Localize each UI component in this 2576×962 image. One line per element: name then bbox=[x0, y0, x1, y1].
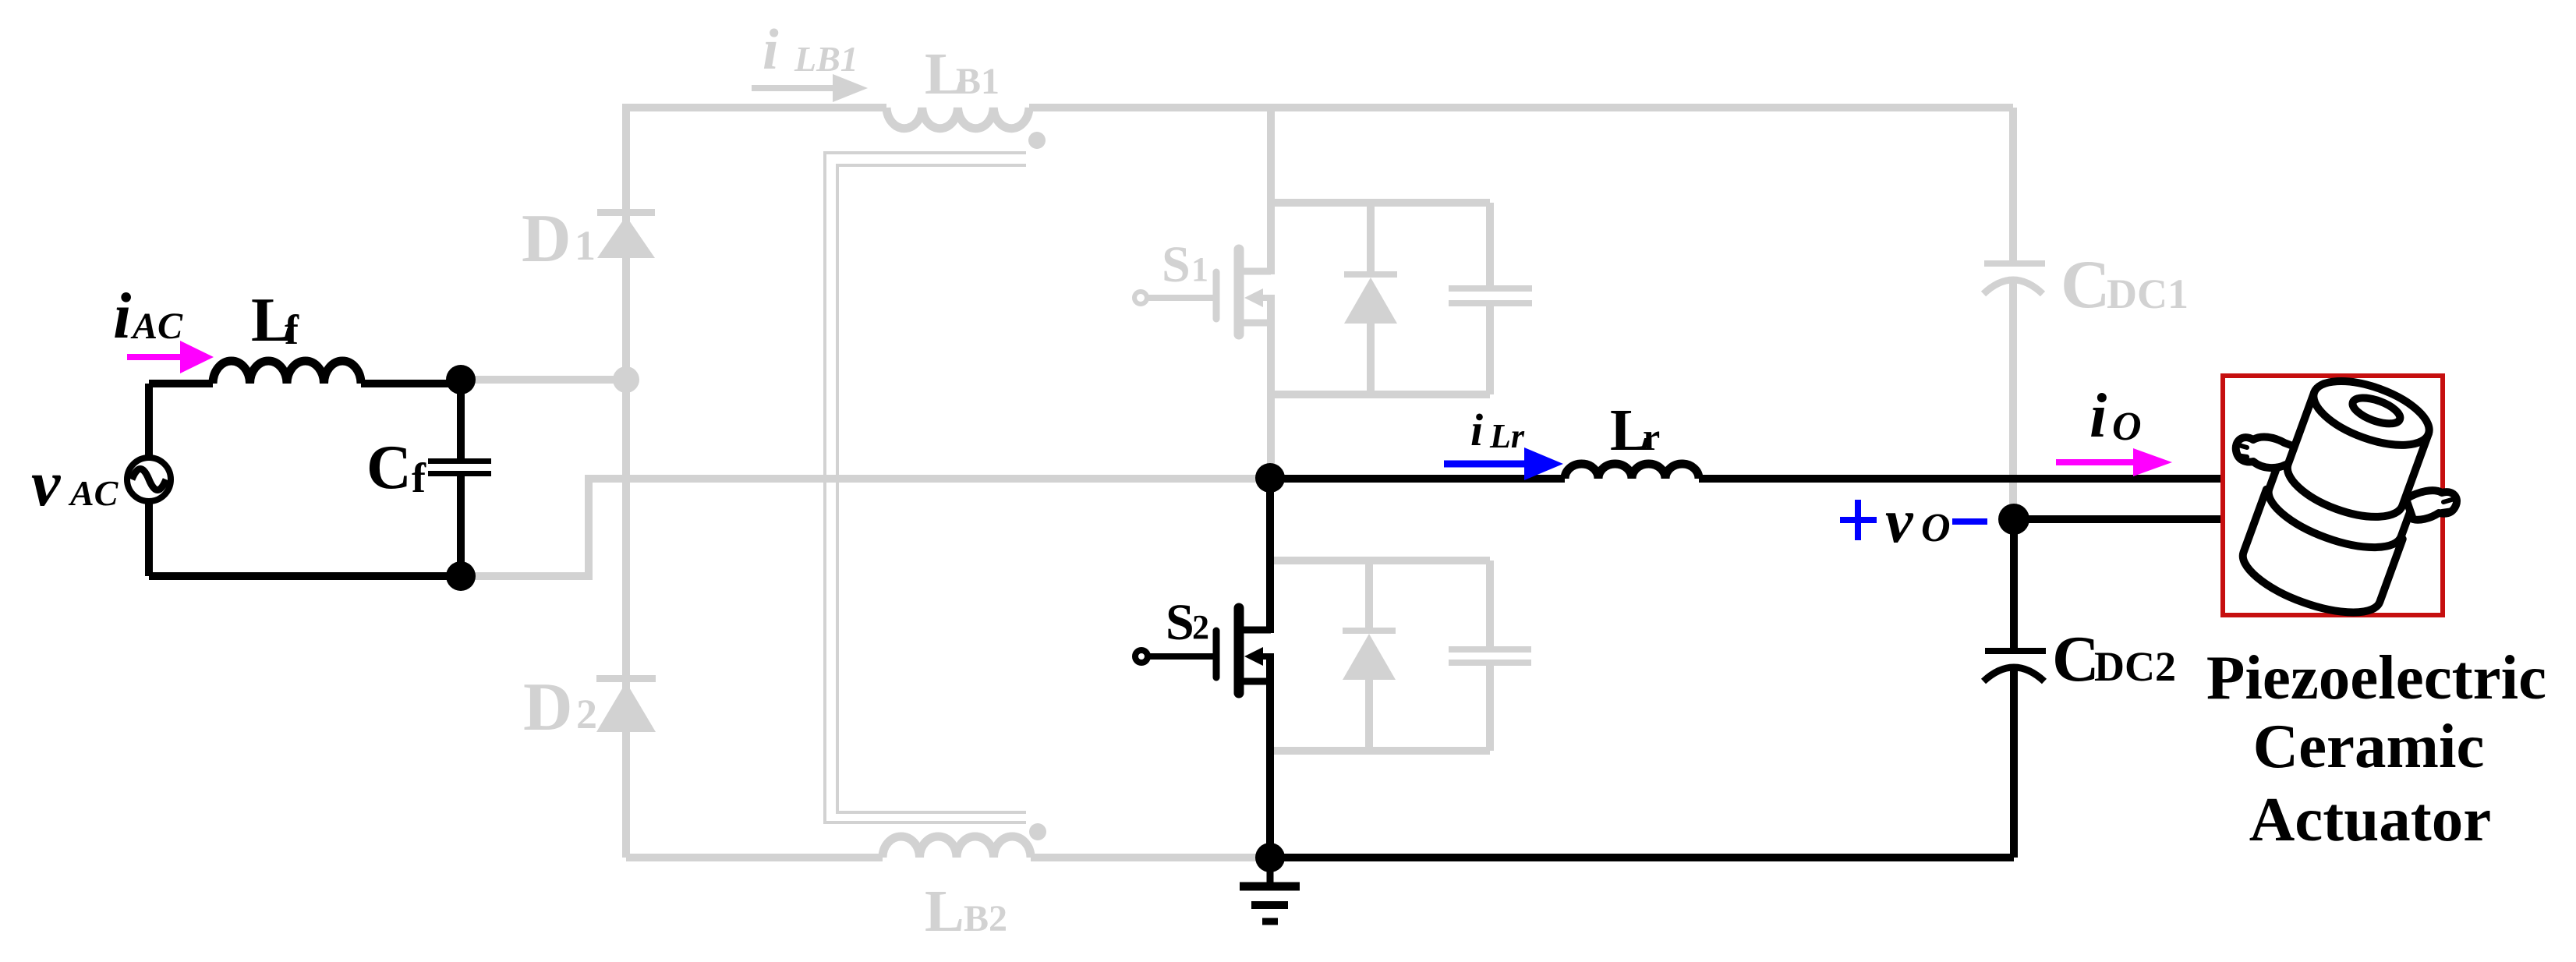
wire bottom rail black bbox=[1270, 854, 2014, 861]
capacitor CDC2 curved plate bbox=[1983, 667, 2044, 681]
svg-text:AC: AC bbox=[130, 306, 183, 347]
source vAC circle bbox=[127, 458, 171, 501]
svg-text:f: f bbox=[412, 454, 426, 501]
svg-text:Lr: Lr bbox=[1489, 417, 1525, 455]
diode DS2 body bbox=[1343, 634, 1396, 680]
capacitor Cf leads bbox=[457, 380, 465, 576]
inductor Lr bbox=[1565, 464, 1699, 479]
node Cf bottom bbox=[446, 561, 476, 591]
svg-text:C: C bbox=[2061, 247, 2111, 323]
piezo right tab tip nicks bbox=[2442, 499, 2454, 511]
node mid bbox=[1255, 463, 1285, 493]
capacitor CDC1 bbox=[1983, 260, 2045, 294]
piezo right electrode tab bbox=[2406, 490, 2457, 520]
wire vo node to piezo bbox=[2014, 515, 2223, 523]
diode DS2 leads bbox=[1365, 561, 1373, 751]
source vAC sine bbox=[132, 469, 166, 490]
wire S1 drain vertical bbox=[1267, 108, 1275, 274]
inductor Lf bbox=[213, 361, 361, 384]
capacitor CS2 plates bbox=[1449, 646, 1531, 653]
wire bottom rail bbox=[626, 854, 883, 861]
wire S2 source vertical bbox=[1266, 653, 1274, 858]
svg-text:v: v bbox=[31, 447, 62, 520]
wire Lr to piezo bbox=[1699, 475, 2223, 483]
svg-text:2: 2 bbox=[576, 691, 597, 737]
wire mid rail from Cf bottom bbox=[461, 479, 1270, 576]
wire source left loop bbox=[145, 384, 153, 576]
polarity dot LB2 bbox=[1029, 823, 1046, 840]
wire bottom rail right segment bbox=[1031, 854, 1270, 861]
coupling core line outer bbox=[825, 153, 1026, 822]
arrow iAC bbox=[127, 354, 180, 360]
svg-text:B1: B1 bbox=[956, 61, 1000, 102]
transistor S2 bbox=[1135, 608, 1271, 693]
svg-text:Piezoelectric: Piezoelectric bbox=[2206, 642, 2546, 713]
svg-text:D: D bbox=[522, 201, 571, 277]
wire CDC1 leads bbox=[2009, 108, 2017, 519]
piezo left tab tip nicks bbox=[2236, 444, 2247, 457]
wire Cf top node to D-leg bbox=[461, 376, 626, 384]
svg-text:DC1: DC1 bbox=[2107, 271, 2189, 317]
wire Lf to node bbox=[361, 380, 461, 387]
svg-text:Ceramic: Ceramic bbox=[2253, 711, 2485, 781]
svg-text:1: 1 bbox=[575, 222, 596, 269]
svg-text:i: i bbox=[763, 18, 779, 82]
inductor LB2 bbox=[883, 836, 1031, 858]
svg-text:S: S bbox=[1162, 236, 1191, 293]
capacitor Cf plates bbox=[428, 458, 491, 464]
wire S1 source vertical bbox=[1267, 295, 1275, 478]
diode D1 bbox=[597, 216, 655, 258]
piezo actuator drawing bbox=[2235, 368, 2457, 627]
arrow iO bbox=[2056, 459, 2133, 465]
arrow iLr bbox=[1444, 461, 1524, 468]
wire top left bbox=[149, 380, 213, 387]
wire top rail left segment bbox=[626, 108, 886, 111]
svg-text:v: v bbox=[1885, 487, 1914, 556]
ground bbox=[1240, 858, 1300, 921]
svg-text:f: f bbox=[285, 306, 299, 353]
svg-text:Actuator: Actuator bbox=[2249, 784, 2491, 854]
svg-text:O: O bbox=[2112, 405, 2142, 449]
capacitor CS1 leads bbox=[1486, 203, 1494, 394]
arrow iLB1 bbox=[752, 85, 833, 91]
diode DS1 leads bbox=[1367, 203, 1375, 394]
svg-text:O: O bbox=[1921, 506, 1951, 550]
svg-text:DC2: DC2 bbox=[2094, 643, 2176, 690]
polarity dot LB1 bbox=[1028, 132, 1046, 149]
svg-text:i: i bbox=[2089, 382, 2107, 451]
svg-text:1: 1 bbox=[1191, 250, 1208, 288]
svg-text:B2: B2 bbox=[964, 898, 1007, 939]
node at D-leg bbox=[613, 366, 639, 393]
node ground bbox=[1255, 843, 1285, 872]
svg-text:L: L bbox=[925, 879, 964, 944]
svg-text:S: S bbox=[1166, 594, 1194, 651]
node Cf top bbox=[446, 365, 476, 394]
wire S1 snubber top bbox=[1271, 199, 1490, 207]
wire bottom left bbox=[149, 572, 461, 580]
node vo bbox=[1998, 504, 2029, 535]
wire mid to Lr bbox=[1270, 475, 1565, 483]
wire S2 snubber bottom bbox=[1270, 747, 1490, 755]
wire top rail right segment bbox=[1029, 104, 2013, 111]
capacitor CDC2 plate bbox=[1985, 648, 2046, 654]
svg-text:i: i bbox=[113, 280, 131, 352]
label vO minus bbox=[1952, 518, 1987, 525]
svg-text:2: 2 bbox=[1192, 608, 1209, 646]
wire D-leg vertical bbox=[622, 108, 630, 858]
svg-text:r: r bbox=[1643, 415, 1660, 458]
wire S2 drain vertical bbox=[1266, 478, 1274, 633]
transistor S1 bbox=[1134, 249, 1271, 334]
svg-text:i: i bbox=[1470, 405, 1483, 455]
piezo left electrode tab bbox=[2236, 437, 2309, 469]
piezo top face bbox=[2305, 368, 2437, 458]
capacitor CDC2 leads bbox=[2010, 519, 2018, 858]
piezo top cap cylinder bbox=[2279, 392, 2428, 529]
diode DS1 body bbox=[1344, 278, 1397, 324]
wire S2 snubber top bbox=[1270, 557, 1490, 564]
red box bbox=[2223, 376, 2443, 615]
diode D2 bbox=[596, 682, 656, 732]
svg-text:D: D bbox=[523, 670, 573, 745]
label vO plus bbox=[1840, 500, 1877, 540]
svg-text:AC: AC bbox=[68, 473, 119, 513]
piezo body cylinder bbox=[2235, 490, 2403, 627]
piezo shim band bbox=[2260, 459, 2411, 561]
svg-text:C: C bbox=[366, 433, 412, 502]
piezo top hole bbox=[2349, 393, 2403, 429]
svg-text:C: C bbox=[2052, 623, 2100, 695]
capacitor CS1 plates bbox=[1449, 285, 1532, 292]
coupling core line inner bbox=[837, 165, 1026, 812]
capacitor CS2 leads bbox=[1486, 561, 1494, 751]
svg-text:LB1: LB1 bbox=[794, 39, 858, 79]
wire S1 snubber bottom bbox=[1271, 391, 1490, 398]
inductor LB1 bbox=[886, 108, 1029, 129]
